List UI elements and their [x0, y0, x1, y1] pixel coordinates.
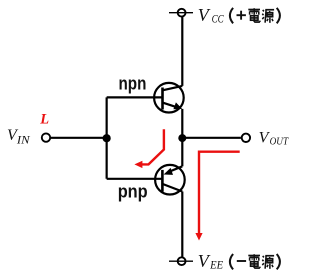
svg-text:OUT: OUT — [270, 137, 290, 148]
svg-text:V: V — [198, 251, 211, 271]
svg-text:V: V — [198, 5, 211, 25]
svg-text:npn: npn — [119, 73, 147, 93]
svg-text:IN: IN — [16, 134, 31, 146]
svg-text:L: L — [39, 112, 49, 128]
svg-text:CC: CC — [212, 12, 225, 26]
svg-text:EE: EE — [209, 258, 223, 272]
svg-text:pnp: pnp — [118, 181, 148, 201]
